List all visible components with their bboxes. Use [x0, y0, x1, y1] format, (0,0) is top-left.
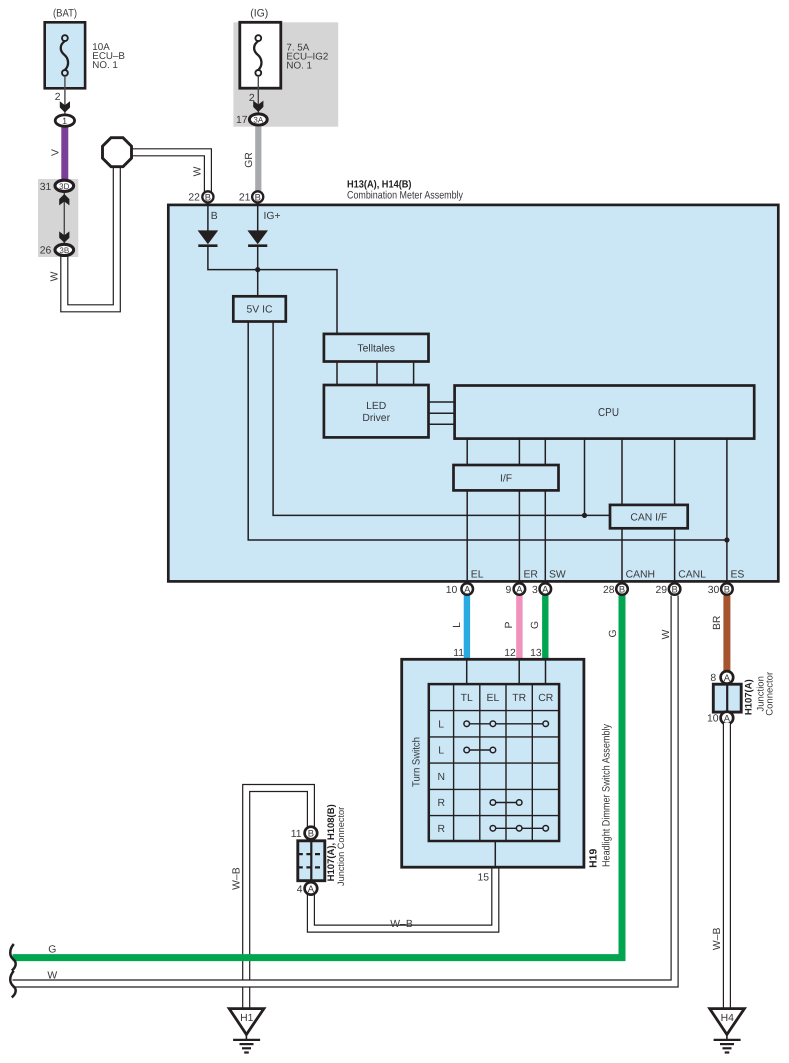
pin number 13 (turn switch): [530, 648, 542, 659]
pin number 11 and connector B (junction): [291, 827, 317, 840]
pin number 22: [188, 193, 200, 204]
pin number 17: [236, 115, 248, 126]
svg-text:Headlight Dimmer Switch Assemb: Headlight Dimmer Switch Assembly: [601, 723, 613, 867]
svg-text:A: A: [724, 672, 731, 683]
svg-text:G: G: [48, 944, 56, 955]
label (IG): [250, 8, 268, 20]
pin number 10 and connector A (right junction): [707, 712, 733, 725]
svg-text:ER: ER: [524, 570, 539, 581]
wire label W (below 3B): [50, 271, 61, 281]
wire label BR (ES): [712, 615, 723, 630]
block I/F: [454, 465, 559, 490]
svg-text:3A: 3A: [253, 116, 263, 125]
gray panel behind connectors 3D/3B: [38, 179, 78, 257]
svg-text:TL: TL: [461, 693, 473, 704]
svg-text:W–B: W–B: [712, 927, 723, 950]
pin number 30 and connector B (ES): [708, 583, 733, 596]
junction node: [255, 267, 260, 272]
rotated label Turn Switch: [412, 737, 423, 787]
svg-text:5V IC: 5V IC: [247, 305, 273, 316]
svg-text:17: 17: [236, 115, 248, 126]
wire D2 through junction to 5V IC: [257, 247, 259, 296]
wire W-B junction 11B up-left-down to ground H1: [246, 788, 311, 1008]
title H13(A), H14(B) Combination Meter Assembly: [347, 179, 463, 201]
ground H1: [229, 1009, 264, 1053]
svg-text:W: W: [50, 271, 61, 281]
svg-text:B: B: [205, 191, 211, 202]
pin number 9 and connector A (ER): [506, 583, 526, 596]
wire pin22 to diode D1: [207, 204, 209, 231]
svg-text:CANL: CANL: [678, 570, 706, 581]
pin number 4 and connector A (junction): [297, 882, 317, 895]
ground H4: [710, 1009, 745, 1053]
svg-text:R: R: [437, 824, 445, 835]
wire fuse to connector 3A: [257, 76, 259, 113]
svg-text:ES: ES: [731, 570, 745, 581]
svg-text:15: 15: [477, 872, 489, 883]
diode D1: [198, 230, 219, 245]
wires Telltales to LED Driver: [337, 362, 414, 386]
diode D2: [247, 230, 268, 245]
pin number 8 and connector A (right junction): [710, 671, 733, 684]
connector 3D: [55, 180, 74, 191]
svg-text:A: A: [308, 883, 315, 894]
combination meter assembly box H13/H14: [168, 205, 778, 582]
wire 5V IC left output to ES line: [248, 322, 727, 541]
gray panel behind fuse ECU-IG2: [233, 22, 338, 126]
pin number 15: [477, 872, 489, 883]
svg-text:CAN I/F: CAN I/F: [630, 512, 667, 523]
fuse 10A ECU-B NO. 1: [45, 22, 85, 88]
svg-text:A: A: [542, 584, 549, 595]
wire label V: [51, 149, 62, 156]
pin number 3 and connector A (SW): [532, 583, 551, 596]
wire label W (to pin 22): [193, 166, 204, 176]
wire table to pin 15: [494, 841, 496, 867]
wire between 3D and 3B with arrows: [59, 193, 69, 243]
pin label B: [211, 211, 218, 222]
svg-text:13: 13: [530, 648, 542, 659]
svg-text:W–B: W–B: [232, 867, 243, 890]
svg-text:N: N: [437, 772, 445, 783]
connector 1: [55, 115, 74, 126]
svg-text:B: B: [211, 211, 218, 222]
wires from pins 11 12 13 into switch table: [467, 659, 546, 684]
svg-text:NO. 1: NO. 1: [286, 60, 312, 71]
block LED Driver: [324, 385, 429, 437]
wire pin21 to diode D2: [257, 204, 259, 231]
wire CPU to CAN I/F input node: [582, 439, 587, 518]
svg-text:V: V: [51, 149, 62, 156]
svg-text:BR: BR: [712, 615, 723, 630]
wires CAN I/F to pins CANH CANL: [622, 528, 675, 582]
junction connector H107(A), H108(B): [298, 841, 325, 881]
svg-text:G: G: [608, 629, 619, 637]
wire label G (bottom left): [48, 944, 56, 955]
svg-text:9: 9: [506, 585, 512, 596]
pin label ES: [731, 570, 745, 581]
svg-text:B: B: [619, 584, 625, 595]
arrow into connector 1: [60, 101, 70, 112]
svg-text:R: R: [437, 798, 445, 809]
block Telltales: [324, 334, 429, 362]
svg-text:W: W: [193, 166, 204, 176]
value label 10A ECU-B NO. 1: [92, 42, 125, 71]
wire label W-B (left vertical): [232, 867, 243, 890]
pin number 21: [239, 193, 251, 204]
svg-text:Junction Connector: Junction Connector: [336, 807, 346, 886]
wire BR (brown) pin 30 to junction 8A: [723, 596, 730, 673]
wire W from octagon junction to meter pin 22: [130, 152, 208, 192]
turn switch contact table: [429, 684, 559, 841]
wire fuse to connector 1: [64, 76, 66, 114]
wire label G (CANH): [608, 629, 619, 637]
wire P (pink) pin 9 to turn switch pin 12: [516, 596, 522, 661]
connector 3A: [249, 114, 267, 125]
svg-text:GR: GR: [244, 152, 255, 168]
pin label EL: [471, 570, 484, 581]
wire W-B junction 10A to ground H4: [723, 723, 731, 1008]
pin number 12 (turn switch): [504, 648, 516, 659]
wire label L: [452, 622, 463, 628]
pin number 11 (turn switch): [453, 648, 464, 659]
svg-text:(IG): (IG): [250, 8, 268, 20]
wire label W (bottom left): [47, 970, 57, 981]
headlight dimmer switch assembly box H19: [402, 659, 584, 867]
wire G (green) pin 3 to turn switch pin 13: [542, 596, 548, 661]
label (BAT): [53, 8, 77, 20]
svg-text:P: P: [504, 621, 515, 628]
svg-text:A: A: [464, 584, 471, 595]
wire W from pin CANL (29) down and left: [13, 596, 675, 984]
connector 22 B: [202, 191, 213, 202]
rotated label Junction (right): [755, 676, 766, 711]
svg-text:H4: H4: [721, 1013, 735, 1024]
rotated label Junction Connector (left): [336, 807, 346, 886]
value label 7.5A ECU-IG2 NO. 1: [286, 42, 328, 71]
pin label SW: [549, 570, 566, 581]
op block 5V IC U1: [233, 296, 285, 321]
svg-text:21: 21: [239, 193, 251, 204]
pin label IG+: [264, 211, 281, 222]
octagon junction: [103, 138, 132, 167]
svg-text:A: A: [516, 584, 523, 595]
wire label W (CANL): [661, 629, 672, 639]
svg-text:28: 28: [603, 585, 615, 596]
fuse 7.5A ECU-IG2 NO. 1: [240, 22, 281, 88]
svg-text:31: 31: [40, 182, 52, 193]
svg-text:LED: LED: [366, 401, 386, 412]
svg-text:EL: EL: [471, 570, 484, 581]
junction connector H107(A) right: [713, 684, 741, 712]
pin number 10 and connector A (EL): [446, 583, 473, 596]
connector 21 B: [252, 191, 263, 202]
svg-text:H107(A): H107(A): [744, 679, 755, 715]
svg-text:30: 30: [708, 585, 720, 596]
svg-text:B: B: [724, 584, 730, 595]
svg-text:CPU: CPU: [598, 407, 619, 419]
svg-text:EL: EL: [487, 693, 500, 704]
svg-text:29: 29: [655, 585, 667, 596]
svg-text:CANH: CANH: [626, 570, 655, 581]
wire 5V IC right output to CAN I/F: [273, 322, 610, 516]
wire L (light blue) pin 10 to turn switch pin 11: [464, 596, 470, 661]
svg-text:10: 10: [446, 585, 458, 596]
bus LED Driver to CPU: [429, 402, 455, 424]
column headers TL EL TR CR: [461, 693, 554, 704]
wire junction to Telltales: [258, 270, 337, 334]
wires I/F to bottom pins EL ER SW: [467, 490, 545, 582]
svg-text:Driver: Driver: [362, 413, 390, 424]
svg-text:(BAT): (BAT): [53, 8, 77, 20]
svg-text:11: 11: [453, 648, 464, 659]
pin number 26: [40, 246, 52, 257]
rotated label Headlight Dimmer Switch Assembly: [601, 723, 613, 867]
break symbol on wire G: [10, 944, 15, 971]
svg-text:W: W: [661, 629, 672, 639]
contact row L1: TL-EL-CR: [464, 721, 549, 727]
svg-text:H19: H19: [589, 849, 600, 868]
svg-text:L: L: [438, 719, 444, 730]
wire label W-B (horizontal run): [390, 919, 413, 930]
svg-text:G: G: [530, 621, 541, 629]
rotated label H19: [589, 849, 600, 868]
wire W-B turn switch pin 15 to junction 4A: [311, 866, 495, 929]
svg-text:Turn Switch: Turn Switch: [412, 737, 423, 787]
contact row R2: EL-TR-CR: [490, 826, 548, 832]
rotated label H107(A) right: [744, 679, 755, 715]
wire CPU to pin ES: [724, 439, 729, 582]
block CAN I/F: [610, 505, 688, 528]
wire label G (SW): [530, 621, 541, 629]
wire D1 to junction: [208, 247, 258, 270]
svg-text:A: A: [724, 713, 731, 724]
arrow into connector 3A: [253, 101, 263, 112]
svg-text:TR: TR: [512, 693, 526, 704]
svg-text:3B: 3B: [59, 246, 69, 255]
pin label CANH: [626, 570, 655, 581]
svg-text:I/F: I/F: [500, 473, 512, 484]
svg-text:W: W: [47, 970, 57, 981]
pin number 2 (IG): [249, 93, 255, 104]
svg-text:W–B: W–B: [390, 919, 413, 930]
svg-text:3: 3: [532, 585, 538, 596]
svg-text:NO. 1: NO. 1: [92, 60, 118, 71]
break symbol on wire W: [10, 971, 15, 998]
wire GR (gray): [255, 127, 261, 191]
svg-text:B: B: [255, 191, 261, 202]
svg-text:26: 26: [40, 246, 52, 257]
wire label GR: [244, 152, 255, 168]
svg-text:IG+: IG+: [264, 211, 281, 222]
wire V (violet): [61, 126, 68, 179]
pin number 28 and connector B (CANH): [603, 583, 628, 596]
wires CPU to CAN I/F: [622, 439, 675, 505]
pin number 31: [40, 182, 52, 193]
pin number 2: [55, 92, 61, 103]
svg-text:SW: SW: [549, 570, 566, 581]
svg-text:4: 4: [297, 884, 303, 895]
pin label ER: [524, 570, 539, 581]
svg-text:3D: 3D: [59, 182, 69, 191]
wire W from connector 3B loop to octagon junction: [64, 165, 117, 308]
svg-text:Telltales: Telltales: [357, 343, 395, 354]
svg-text:B: B: [308, 828, 314, 839]
block CPU: [455, 386, 755, 439]
svg-text:22: 22: [188, 193, 200, 204]
svg-text:B: B: [671, 584, 677, 595]
svg-text:L: L: [438, 746, 444, 757]
svg-text:8: 8: [710, 673, 716, 684]
svg-text:Combination Meter Assembly: Combination Meter Assembly: [347, 189, 463, 201]
pin label CANL: [678, 570, 706, 581]
svg-text:12: 12: [504, 648, 516, 659]
svg-text:1: 1: [62, 116, 67, 126]
svg-text:10: 10: [707, 714, 719, 725]
wire G from pin CANH (28) down and left: [13, 593, 623, 958]
contact row L2: TL-EL: [464, 747, 496, 753]
svg-text:CR: CR: [538, 693, 554, 704]
svg-text:L: L: [452, 622, 463, 628]
svg-text:H1: H1: [240, 1013, 254, 1024]
wire label P: [504, 621, 515, 628]
wires CPU to I/F: [467, 439, 545, 465]
contact row R1: EL-TR: [490, 800, 522, 806]
rotated label Connector (right): [764, 672, 775, 716]
rotated label H107(A), H108(B): [326, 804, 337, 881]
svg-text:Connector: Connector: [764, 672, 775, 716]
row labels L L N R R: [437, 719, 445, 835]
wire label W-B (right vertical): [712, 927, 723, 950]
pin number 29 and connector B (CANL): [655, 583, 680, 596]
svg-text:11: 11: [291, 829, 302, 840]
connector 3B: [55, 244, 74, 255]
